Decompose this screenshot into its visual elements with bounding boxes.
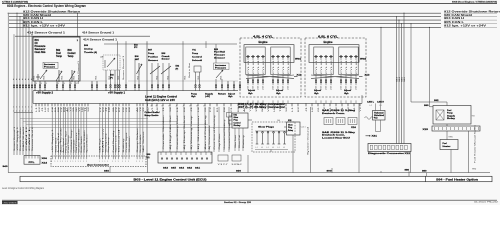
sensor B08 crank position — [161, 53, 171, 90]
net label fuel heater manual switch (rotated) — [474, 125, 477, 163]
svg-text:Deutsch Conn.: Deutsch Conn. — [322, 134, 346, 137]
svg-text:K2: K2 — [39, 107, 41, 112]
svg-text:Fuel Rail: Fuel Rail — [214, 52, 225, 54]
svg-text:Mech to Shut: Mech to Shut — [188, 62, 191, 78]
label X07 60-way connector — [238, 106, 285, 109]
wire number labels under B09 connector — [163, 167, 201, 170]
svg-text:S2: S2 — [286, 107, 288, 112]
svg-text:1: 1 — [125, 161, 126, 163]
svg-text:H2: H2 — [45, 107, 47, 112]
svg-text:951: 951 — [33, 75, 35, 79]
svg-text:V1: V1 — [152, 107, 154, 112]
wire fuel heater switch drop — [469, 131, 477, 173]
svg-text:X06 (A-K) 40-Way Connector: X06 (A-K) 40-Way Connector — [238, 103, 285, 106]
svg-text:CYL #5: CYL #5 — [356, 59, 358, 74]
svg-text:CYL #3: CYL #3 — [278, 59, 280, 74]
svg-text:Unit (ECU) 12V or 24V: Unit (ECU) 12V or 24V — [145, 99, 175, 102]
svg-text:1: 1 — [139, 161, 140, 163]
svg-text:K2: K2 — [298, 107, 300, 112]
svg-text:F2: F2 — [210, 107, 212, 112]
svg-text:CYL #2: CYL #2 — [288, 59, 290, 74]
svg-text:Speed Select: Speed Select — [86, 134, 89, 153]
svg-text:Battery: Battery — [242, 135, 245, 148]
svg-text:Glow: Glow — [288, 124, 293, 126]
wire twisted pair down to X31 — [376, 120, 381, 132]
wire bus: 905 CAN L — [9, 20, 497, 24]
svg-text:4.5L 4 CYL: 4.5L 4 CYL — [253, 35, 274, 38]
net label sensor ground (rotated) x123 — [122, 56, 125, 80]
wire bus: 020 CAN Shield — [9, 13, 497, 17]
svg-text:L-1: L-1 — [283, 147, 285, 149]
connector labels X06 X14 — [42, 158, 49, 165]
svg-text:A) High Idle Sel: A) High Idle Sel — [169, 114, 172, 150]
svg-text:CYL #1: CYL #1 — [248, 59, 250, 74]
svg-text:Cont. Line of Cranking: Cont. Line of Cranking — [213, 116, 216, 150]
inject-high labels 6cyl — [314, 89, 351, 95]
svg-text:1: 1 — [65, 161, 66, 163]
ECU label +5V Supply 1 — [108, 92, 126, 95]
svg-text:L-1: L-1 — [255, 147, 257, 149]
svg-text:1: 1 — [102, 161, 103, 163]
svg-text:1: 1 — [83, 161, 84, 163]
svg-text:G2: G2 — [151, 106, 153, 108]
svg-text:Throttle (A): Throttle (A) — [84, 51, 97, 54]
svg-text:Clutch Switch: Clutch Switch — [83, 131, 86, 153]
label SAE J1939 connector (top) — [322, 109, 356, 115]
svg-text:Sensor: Sensor — [214, 58, 225, 60]
svg-text:Cap Drive: Cap Drive — [218, 134, 221, 150]
diagram title — [7, 4, 86, 8]
svg-text:CYL #2: CYL #2 — [341, 59, 343, 74]
wire 940 to ground rail — [104, 167, 110, 173]
svg-text:CAN H: CAN H — [25, 124, 28, 151]
svg-text:980: 980 — [405, 170, 410, 172]
svg-text:1: 1 — [28, 106, 29, 108]
net label sensor ground 1 (rotated, in B04 box) — [77, 61, 80, 84]
svg-text:T1: T1 — [85, 107, 87, 112]
inject-high labels 4cyl — [248, 89, 283, 95]
thermistor B03 symbol — [69, 70, 75, 82]
wire long drop x147 — [147, 41, 216, 157]
page header: document id top-right — [452, 0, 497, 3]
wire Y01 feed stub — [205, 41, 207, 48]
svg-text:Pressure: Pressure — [44, 66, 56, 68]
svg-text:414 Sensor Ground 1: 414 Sensor Ground 1 — [27, 30, 66, 34]
svg-text:1: 1 — [51, 161, 52, 163]
svg-text:1: 1 — [136, 161, 137, 163]
svg-text:Coolant: Coolant — [68, 52, 76, 55]
svg-text:D2: D2 — [58, 107, 60, 112]
twisted shielded pair symbol — [365, 111, 386, 121]
component group bar B03 / S64 — [20, 176, 492, 181]
svg-text:E1: E1 — [204, 106, 206, 108]
svg-text:H2: H2 — [312, 107, 314, 112]
svg-text:Relay: Relay — [447, 118, 456, 120]
ECU label +5V Supply 2 — [36, 92, 54, 95]
svg-text:MAT: MAT — [135, 58, 140, 61]
svg-text:Aux of Cranking: Aux of Cranking — [204, 116, 207, 150]
svg-text:951: 951 — [43, 75, 45, 79]
diagnostic connector X12 — [368, 144, 411, 156]
svg-text:SAE J1939 11 3-Way: SAE J1939 11 3-Way — [322, 109, 356, 112]
footer rule — [2, 199, 497, 201]
sensor B09 fuel rail pressure — [214, 49, 230, 91]
svg-text:L-1: L-1 — [272, 147, 274, 149]
svg-text:Return: Return — [218, 92, 227, 95]
svg-text:V1: V1 — [79, 107, 81, 112]
svg-text:Fuel Heater Manual Switch: Fuel Heater Manual Switch — [474, 125, 477, 163]
wire relay to X15 — [446, 124, 448, 126]
svg-text:1: 1 — [115, 161, 116, 163]
svg-text:414 Sensor Ground 1: 414 Sensor Ground 1 — [83, 37, 117, 41]
svg-text:Engine: Engine — [324, 42, 334, 44]
svg-text:Sensor: Sensor — [35, 49, 46, 51]
svg-text:(+5V): (+5V) — [205, 96, 210, 98]
svg-text:1: 1 — [128, 161, 129, 163]
pressure sensor symbol B04 — [36, 70, 47, 80]
svg-text:CYL #1: CYL #1 — [273, 59, 275, 74]
wire drops x117-135 — [117, 41, 136, 90]
svg-text:1: 1 — [118, 161, 119, 163]
wire 900 to ground rail — [327, 168, 333, 173]
svg-text:1: 1 — [57, 161, 58, 163]
svg-text:CYL #5: CYL #5 — [321, 59, 323, 74]
svg-text:C1: C1 — [231, 107, 233, 112]
svg-text:Deutsch Conn.: Deutsch Conn. — [322, 112, 346, 115]
svg-text:L-1: L-1 — [266, 147, 268, 149]
spare ECU top pins — [91, 81, 240, 91]
svg-text:Shutdown: Shutdown — [128, 137, 131, 153]
wire ign drop x381 — [380, 27, 381, 104]
wire CAN H drop — [22, 20, 23, 155]
svg-text:U2: U2 — [157, 107, 159, 112]
B04 box pins and mating connector — [34, 81, 76, 91]
glow plugs assembly — [252, 122, 295, 152]
svg-text:L1: L1 — [36, 107, 38, 112]
svg-text:1: 1 — [19, 106, 20, 108]
svg-text:Cruise/Bump Enbl: Cruise/Bump Enbl — [176, 114, 179, 149]
svg-text:1: 1 — [80, 161, 81, 163]
svg-text:CYL #1: CYL #1 — [351, 59, 353, 74]
svg-text:Y-3 Y-7: Y-3 Y-7 — [218, 164, 228, 166]
svg-text:CYL #2: CYL #2 — [263, 59, 265, 74]
wire override drop to relay coil — [424, 27, 433, 107]
svg-text:L1: L1 — [100, 107, 102, 112]
svg-text:1: 1 — [73, 161, 74, 163]
connector X06 PPL block — [24, 156, 40, 165]
svg-text:G1: G1 — [318, 107, 320, 112]
throttle pins — [105, 70, 120, 91]
svg-text:L-2: L-2 — [370, 105, 372, 107]
net label mech shutoff (rotated) — [188, 62, 191, 78]
svg-text:B: B — [41, 83, 42, 85]
svg-text:Control: Control — [192, 55, 202, 58]
net labels (rotated) on aux wire bundle — [52, 126, 145, 152]
connector stubs Y/X pins — [218, 155, 242, 166]
svg-text:Bump Enable: Bump Enable — [140, 135, 142, 153]
svg-text:G1: G1 — [48, 107, 50, 112]
svg-text:Sensor Ground 1: Sensor Ground 1 — [77, 61, 80, 84]
svg-text:G1: G1 — [156, 106, 158, 108]
svg-text:L1: L1 — [292, 107, 294, 112]
svg-text:414 Sensor Ground 1: 414 Sensor Ground 1 — [82, 30, 114, 34]
svg-text:1: 1 — [62, 161, 63, 163]
svg-text:1: 1 — [70, 161, 71, 163]
wire +5V link between sensor pins — [80, 80, 238, 82]
svg-text:W2: W2 — [147, 107, 149, 112]
svg-text:Sensor: Sensor — [162, 58, 170, 61]
svg-text:951: 951 — [184, 75, 186, 79]
svg-text:Sensor Ground 1: Sensor Ground 1 — [122, 56, 125, 80]
svg-text:Rail Pressure: Rail Pressure — [75, 133, 78, 153]
svg-text:Battery: Battery — [122, 138, 125, 152]
injector pins 4cyl — [247, 75, 289, 104]
svg-text:980: 980 — [422, 171, 427, 173]
engine option 6.8L 6-cyl injector assembly W02 — [305, 35, 367, 97]
svg-text:+5V Supply 1: +5V Supply 1 — [17, 127, 19, 151]
svg-text:J1: J1 — [42, 107, 44, 112]
svg-text:6068 Diesel Engines / CTM502 (: 6068 Diesel Engines / CTM502 (19MAY08) — [452, 0, 497, 3]
svg-text:CYL #3: CYL #3 — [253, 59, 255, 74]
svg-text:B04: B04 — [35, 39, 40, 42]
svg-text:Glow Plugs: Glow Plugs — [258, 127, 275, 129]
page header: manual reference top-left — [2, 0, 28, 3]
svg-text:6.8L 6 CYL: 6.8L 6 CYL — [318, 35, 339, 38]
svg-text:Twisted: Twisted — [374, 111, 385, 114]
svg-text:951: 951 — [73, 75, 75, 79]
svg-text:Crank: Crank — [162, 55, 171, 58]
svg-text:02-150-5 PN=222: 02-150-5 PN=222 — [474, 202, 498, 204]
svg-text:L-1: L-1 — [261, 147, 263, 149]
svg-text:CAN Shield: CAN Shield — [22, 127, 25, 151]
svg-text:1: 1 — [25, 106, 26, 108]
wire bus: 414 Sensor Ground 1 (second run) — [83, 37, 237, 44]
footer right page id — [474, 202, 498, 204]
svg-text:951: 951 — [95, 75, 97, 79]
injector pins 6cyl — [315, 75, 357, 104]
footer manual block — [2, 201, 18, 205]
svg-text:1: 1 — [112, 161, 113, 163]
svg-text:Starter Lock: Starter Lock — [114, 135, 117, 152]
svg-text:1: 1 — [107, 161, 108, 163]
wire ign supply drop — [28, 27, 29, 155]
ground rail wire (left) — [8, 171, 420, 173]
ECU top edge — [33, 90, 238, 92]
svg-text:Solenoid: Solenoid — [192, 60, 203, 62]
svg-text:CYL #1: CYL #1 — [316, 59, 318, 74]
svg-text:2: 2 — [16, 110, 17, 112]
svg-text:CYL #4: CYL #4 — [258, 59, 260, 74]
svg-text:1: 1 — [22, 106, 23, 108]
svg-text:Ramp Select: Ramp Select — [136, 127, 139, 152]
svg-text:B: B — [36, 83, 37, 85]
svg-text:Temp: Temp — [68, 56, 75, 58]
svg-text:A1: A1 — [66, 107, 69, 112]
svg-text:CAN L: CAN L — [28, 127, 31, 151]
svg-text:Section 02 - Group 150: Section 02 - Group 150 — [224, 201, 252, 204]
wire ign drop to fuel pump relay — [410, 23, 447, 105]
svg-text:Y2: Y2 — [70, 107, 72, 112]
svg-text:(P): (P) — [176, 68, 179, 70]
svg-text:Aux Connector: Aux Connector — [87, 164, 109, 167]
svg-text:(P): (P) — [110, 78, 113, 80]
svg-text:Glow Cntl: Glow Cntl — [238, 134, 241, 148]
net label system ground (rotated) — [307, 127, 310, 155]
svg-text:Override Shutdwn: Override Shutdwn — [162, 116, 165, 150]
wire jogs from left cluster — [20, 119, 232, 128]
wires K01 to stub connectors — [235, 128, 245, 151]
svg-text:X1: X1 — [73, 107, 75, 112]
svg-text:CAN Low: CAN Low — [102, 126, 105, 152]
svg-text:B: B — [58, 83, 59, 85]
relay K03 fuel pump supply relay — [433, 106, 475, 125]
svg-text:E2: E2 — [197, 106, 199, 108]
wire crossover lens X13 (6cyl) — [311, 74, 371, 78]
svg-text:2: 2 — [19, 110, 20, 112]
wire CAN L drop — [25, 23, 26, 155]
svg-text:S64 - Fuel Heater Option: S64 - Fuel Heater Option — [436, 178, 479, 181]
relay K01 glow plug control — [227, 113, 253, 129]
wire ECU ground right drop — [358, 103, 360, 172]
svg-text:X07 (L-Y) 60-Way Connector: X07 (L-Y) 60-Way Connector — [238, 106, 285, 109]
svg-text:Brake Switch: Brake Switch — [80, 137, 83, 153]
svg-text:104: 104 — [277, 120, 280, 122]
wire 980 label right section — [422, 171, 427, 177]
footer section number — [224, 201, 252, 204]
svg-text:Unswitched Battery: Unswitched Battery — [223, 119, 226, 149]
svg-text:X16: X16 — [351, 127, 356, 129]
svg-text:X-8 W-2: X-8 W-2 — [232, 164, 242, 166]
wire bundle battery/cranking — [209, 107, 229, 152]
svg-text:996: 996 — [449, 136, 453, 138]
svg-text:CAN L: CAN L — [367, 101, 375, 104]
svg-text:990: 990 — [472, 168, 476, 170]
svg-text:+5V Supply 2: +5V Supply 2 — [36, 92, 54, 95]
label E02 sensor — [176, 66, 180, 71]
header rule — [2, 2, 497, 4]
wire CAN shield drop — [19, 16, 20, 155]
wire 940 label far left — [3, 165, 9, 168]
svg-text:Supply: Supply — [205, 93, 214, 95]
wire K02 to ground rail — [292, 135, 294, 173]
svg-text:SAE J1939 11 3-Way: SAE J1939 11 3-Way — [322, 131, 356, 134]
svg-text:Oil: Oil — [35, 43, 38, 45]
svg-text:1: 1 — [122, 161, 123, 163]
svg-text:Fuel: Fuel — [56, 53, 61, 55]
svg-text:CYL #4: CYL #4 — [346, 59, 348, 74]
svg-text:Ground: Ground — [117, 130, 120, 153]
svg-text:CYL #3: CYL #3 — [326, 59, 328, 74]
svg-text:Inject: Inject — [314, 89, 321, 92]
svg-text:Supply: Supply — [447, 115, 456, 117]
connector labels on left wire cluster (row 2) — [13, 106, 32, 112]
svg-text:1: 1 — [86, 161, 87, 163]
svg-text:High: High — [276, 93, 281, 95]
svg-text:1: 1 — [78, 161, 79, 163]
svg-text:6068 Engines - Electronic Cont: 6068 Engines - Electronic Control System… — [7, 4, 86, 8]
svg-text:912 Ign. +12V or +24V: 912 Ign. +12V or +24V — [23, 24, 65, 28]
actuator Y01 pump control solenoid — [192, 50, 203, 91]
svg-text:Engine: Engine — [259, 42, 269, 44]
svg-text:CAN H: CAN H — [377, 101, 385, 104]
svg-text:Control: Control — [234, 121, 241, 124]
label cruise brake bump enable — [145, 112, 161, 172]
svg-text:Stop Lamp: Stop Lamp — [107, 138, 110, 153]
svg-text:1: 1 — [142, 161, 143, 163]
wire bundle ECU to connector X11 — [163, 107, 205, 152]
sensor B04 oil pressure / B02 fuel temp / B03 coolant temp box — [33, 37, 80, 81]
connector trio SAE J1939 — [324, 118, 357, 130]
ECU pin-function labels pump/supply/return — [191, 92, 235, 98]
svg-text:B03 - Level 11 Engine Control: B03 - Level 11 Engine Control Unit (ECU) — [134, 178, 207, 181]
svg-text:1: 1 — [67, 161, 68, 163]
label SAE J1939 connector located near ECU — [322, 131, 356, 139]
svg-text:K1: K1 — [169, 106, 171, 108]
svg-text:Crank Input: Crank Input — [125, 131, 128, 152]
svg-text:Warning Lamp: Warning Lamp — [104, 134, 107, 153]
svg-text:A) Ramp Select: A) Ramp Select — [183, 114, 186, 149]
connector B09 (A) block — [147, 152, 213, 163]
wire L1 down to B04 pin 1 — [77, 13, 78, 37]
svg-text:B: B — [46, 83, 47, 85]
svg-text:Idle Select: Idle Select — [142, 130, 145, 152]
ECU bottom edge — [33, 91, 362, 104]
svg-text:Sensor Gnd 1: Sensor Gnd 1 — [54, 138, 57, 153]
engine option 4.5L 4-cyl injector assembly W01 — [240, 35, 302, 97]
wire bundle ECU to aux connector — [52, 107, 143, 156]
net labels (rotated) battery/cranking bundle — [208, 116, 231, 150]
svg-text:1: 1 — [99, 161, 100, 163]
connector X14 aux connector — [51, 156, 146, 167]
svg-text:B02: B02 — [56, 50, 61, 52]
svg-text:Temp: Temp — [56, 56, 63, 58]
wire bundle CAN drops to diagnostic connector — [396, 13, 406, 144]
sensor B05 IPC label — [134, 44, 139, 49]
svg-text:E3: E3 — [190, 106, 192, 108]
svg-text:IPC: IPC — [134, 47, 138, 49]
svg-text:CTM3 5 (19MAY08): CTM3 5 (19MAY08) — [2, 0, 28, 3]
svg-text:2: 2 — [28, 110, 29, 112]
wire override shutdown drop — [16, 13, 17, 155]
thermistor B02 symbol — [56, 70, 62, 82]
pin labels ECU row above B09 connector — [151, 106, 206, 108]
svg-text:1: 1 — [105, 161, 106, 163]
wire number labels above ECU top pins — [33, 75, 222, 79]
svg-text:Pump: Pump — [192, 53, 199, 55]
svg-text:CYL #4: CYL #4 — [283, 59, 285, 74]
svg-text:Heater: Heater — [443, 145, 451, 148]
svg-text:CAN High: CAN High — [99, 139, 102, 153]
wire bus: 904 CAN H — [9, 16, 497, 20]
svg-text:J1: J1 — [106, 107, 108, 112]
svg-text:Sensor Ground 1: Sensor Ground 1 — [13, 127, 16, 151]
svg-text:H2: H2 — [109, 107, 111, 112]
ECU main label — [145, 95, 177, 101]
wire system ground drop — [309, 107, 311, 173]
label X06 40-way connector — [238, 103, 285, 106]
svg-text:+5V Supply 1: +5V Supply 1 — [108, 92, 126, 95]
svg-text:Glow Feed: Glow Feed — [235, 135, 237, 148]
svg-text:High: High — [228, 96, 233, 98]
svg-text:2: 2 — [31, 110, 32, 112]
svg-text:High: High — [314, 93, 319, 95]
svg-text:(A): (A) — [147, 156, 150, 159]
svg-text:B: B — [76, 83, 77, 85]
svg-text:L-1: L-1 — [277, 147, 279, 149]
svg-text:Analog: Analog — [84, 48, 93, 51]
svg-text:Pair: Pair — [374, 118, 378, 120]
wire 930 to ground rail — [236, 155, 248, 173]
